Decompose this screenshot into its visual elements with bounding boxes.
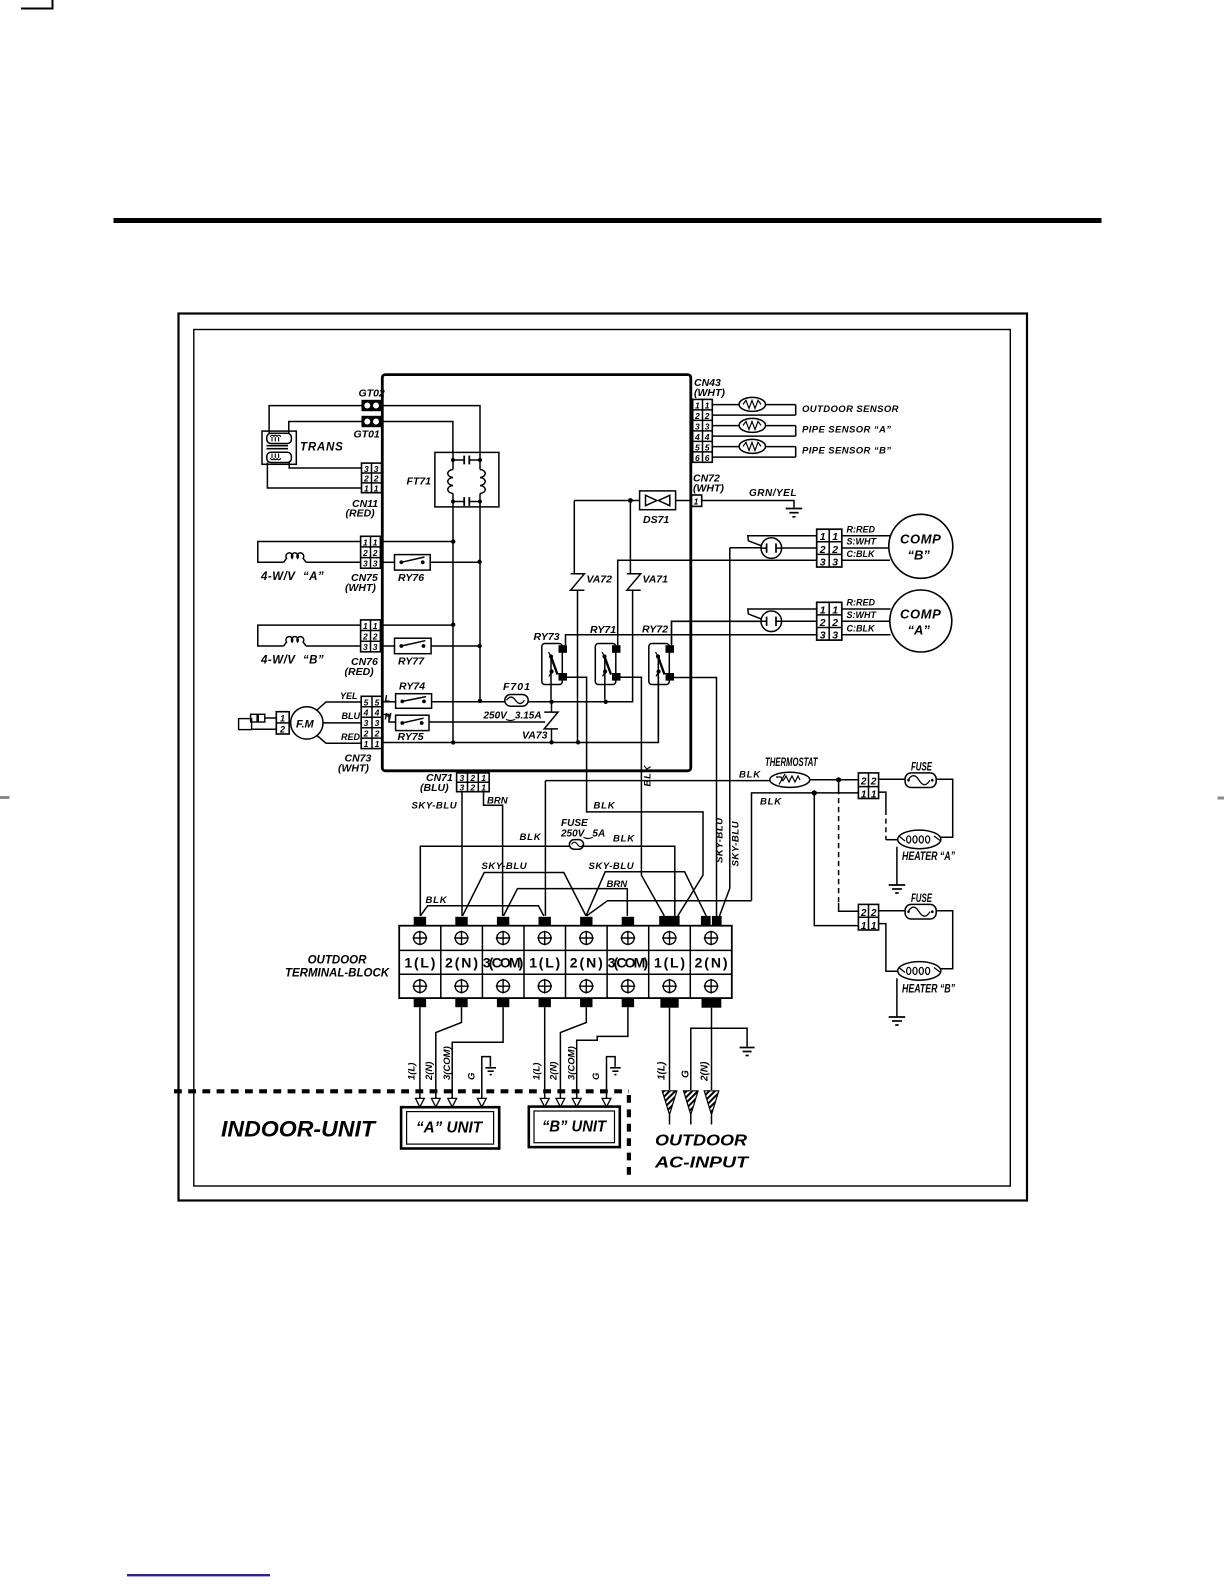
wire CN11 pin3 to TRANS secondary right <box>289 463 361 469</box>
hatched arrow AC 2(N) <box>704 1091 719 1125</box>
relay RY73 <box>542 644 567 685</box>
left gray tick <box>0 796 10 799</box>
wire AC input 1(L) <box>669 1008 671 1090</box>
wire A unit 1(L) <box>419 1007 421 1098</box>
svg-text:1(L): 1(L) <box>407 1063 418 1080</box>
wire main return bus (CN73 pin1 RED line) <box>383 677 659 743</box>
svg-text:HEATER “B”: HEATER “B” <box>902 983 955 996</box>
svg-text:3(COM): 3(COM) <box>442 1046 453 1080</box>
svg-text:OUTDOOR SENSOR: OUTDOOR SENSOR <box>802 404 899 415</box>
svg-text:PIPE SENSOR “A”: PIPE SENSOR “A” <box>802 425 891 436</box>
terminal labels 1(L) 2(N) 3(COM) x2 plus 1(L) 2(N) <box>404 955 727 971</box>
svg-text:2: 2 <box>860 777 867 788</box>
connector CN75 (WHT) <box>361 536 381 568</box>
wire lower feed node down to heater B connector pin1 <box>814 793 858 926</box>
svg-text:G: G <box>466 1072 477 1080</box>
arrows into A unit <box>416 1098 487 1107</box>
svg-text:1: 1 <box>375 739 380 749</box>
svg-text:RY73: RY73 <box>534 631 560 643</box>
fuse heater B <box>905 904 936 919</box>
svg-text:THERMOSTAT: THERMOSTAT <box>765 757 819 770</box>
compressor COMP "B" <box>889 514 953 578</box>
connector CN71 (BLU) <box>457 773 490 793</box>
wire RY77 to bus B <box>431 645 479 647</box>
svg-text:1: 1 <box>364 483 369 493</box>
wire CN11 pin1 to TRANS secondary left <box>267 463 361 489</box>
svg-text:BLK: BLK <box>643 764 654 786</box>
wire DS71 line (surge bus) <box>574 500 691 502</box>
svg-text:2: 2 <box>831 617 838 629</box>
connector heater B 2/1 <box>858 904 878 931</box>
indoor B unit box <box>529 1107 620 1148</box>
wire BLK lug1 to lug4 lower link <box>420 906 544 916</box>
junction dot thermostat node <box>836 777 841 782</box>
wire B unit 2(N) <box>560 1007 586 1098</box>
varistor VA72 <box>571 574 585 743</box>
junction dot VA72 / return bus <box>576 740 580 744</box>
svg-text:3(COM): 3(COM) <box>567 1046 578 1080</box>
svg-text:FT71: FT71 <box>407 476 432 488</box>
svg-text:BLK: BLK <box>594 801 616 812</box>
svg-text:2: 2 <box>469 782 475 792</box>
svg-text:1: 1 <box>861 789 867 800</box>
wire fuse B to heater B right <box>936 911 953 969</box>
wire GT02 left to TRANS <box>269 406 361 434</box>
svg-text:RED: RED <box>341 732 361 742</box>
svg-text:VA71: VA71 <box>643 574 669 586</box>
diode arrester DS71 <box>640 491 676 510</box>
junction dot bus B / RY76 <box>477 560 481 564</box>
wire GRN/YEL earth lead <box>702 501 794 508</box>
wire overload A to pin2 <box>782 620 817 622</box>
hatched arrow AC G <box>684 1091 699 1125</box>
terminal lugs bottom <box>414 998 722 1008</box>
wire B unit 1(L) <box>544 1007 546 1098</box>
fan motor plug connector 1/2 <box>276 712 289 735</box>
wire RY71 top pad riser to COMP B C-line <box>618 560 817 645</box>
svg-text:3: 3 <box>460 773 465 783</box>
relay RY71 <box>595 644 620 685</box>
svg-text:2(N): 2(N) <box>445 955 478 971</box>
svg-text:1: 1 <box>832 531 838 543</box>
svg-text:SKY-BLU: SKY-BLU <box>589 861 635 872</box>
outdoor terminal block body <box>399 926 732 998</box>
svg-text:BLK: BLK <box>613 834 635 845</box>
connector CN43 (WHT) <box>693 399 713 462</box>
connector heater A 2/1 <box>858 773 878 800</box>
svg-text:2: 2 <box>372 548 378 558</box>
svg-text:VA73: VA73 <box>522 730 548 742</box>
svg-text:250V‿5A: 250V‿5A <box>560 829 605 840</box>
connector CN73 (WHT) <box>361 696 383 749</box>
svg-text:2: 2 <box>870 908 877 919</box>
svg-text:3(COM): 3(COM) <box>483 955 523 971</box>
wire heater connector A pin2 to fuse A <box>879 778 906 780</box>
overload protector COMP B <box>761 538 782 559</box>
relay RY77 <box>395 638 432 654</box>
thermostat TH <box>770 772 810 787</box>
svg-text:(WHT): (WHT) <box>694 387 725 399</box>
junction dot VA73 / return bus <box>549 740 553 744</box>
wire overload B feed vertical <box>720 548 761 916</box>
line filter FT71 <box>435 452 499 507</box>
junction dot bus A / CN76-1 <box>451 623 455 627</box>
svg-text:BLU: BLU <box>342 711 361 721</box>
pipe sensor B thermistor <box>712 439 795 457</box>
wire C:BLK to COMP B <box>842 559 890 561</box>
junction dot bus B / L-line <box>478 699 482 703</box>
wire S:WHT to COMP B <box>842 547 890 549</box>
wire heater connector B pin1 to heater B left <box>879 924 898 972</box>
svg-text:1: 1 <box>695 400 700 410</box>
inner frame box <box>194 330 1011 1187</box>
wire RY72 bottom pad to terminal lug 8b <box>674 678 717 916</box>
svg-text:SKY-BLU: SKY-BLU <box>715 817 726 863</box>
svg-text:2: 2 <box>372 632 378 642</box>
connector GT01 <box>362 416 382 427</box>
wire AC input G to ground <box>691 1028 747 1090</box>
top rule <box>114 218 1102 223</box>
svg-text:4-W/V “A”: 4-W/V “A” <box>260 571 324 583</box>
wire GT02 right to FT71 right bus <box>382 406 480 453</box>
wire heater B to ground <box>896 978 898 1016</box>
wire A unit 3(COM) <box>452 1007 503 1098</box>
svg-text:(WHT): (WHT) <box>345 582 376 594</box>
bus A vertical (FT71 left output) <box>452 507 454 743</box>
varistor VA72 riser <box>573 501 575 574</box>
svg-text:G: G <box>680 1070 691 1078</box>
pipe sensor A thermistor <box>712 418 795 436</box>
wire CN76 pin3 to RY77 <box>380 645 394 647</box>
wire RY72 coil to return bus <box>657 658 659 741</box>
relay RY76 <box>395 555 431 571</box>
wire BRN CN71 pin1 to lug3 <box>484 792 503 916</box>
svg-text:RY76: RY76 <box>398 572 424 584</box>
svg-text:1: 1 <box>280 713 285 723</box>
svg-text:1(L): 1(L) <box>531 1063 542 1080</box>
svg-text:F701: F701 <box>503 681 531 693</box>
connector CN11 (RED) <box>362 463 382 493</box>
wire lug5 to heater lower feed <box>587 901 752 916</box>
connector CN72 (WHT) <box>691 495 701 507</box>
fuse F701 <box>505 695 528 707</box>
svg-text:1: 1 <box>820 604 826 616</box>
wire C:BLK to COMP A <box>842 634 891 636</box>
svg-text:FUSE: FUSE <box>561 818 588 829</box>
bottom blue rule <box>127 1574 270 1576</box>
outer frame box <box>179 314 1028 1201</box>
wire CN75 pin1 into PCB to bus A <box>380 541 453 543</box>
svg-text:4-W/V “B”: 4-W/V “B” <box>260 655 324 667</box>
svg-text:SKY-BLU: SKY-BLU <box>731 820 742 866</box>
svg-text:5: 5 <box>695 442 700 452</box>
svg-text:HEATER “A”: HEATER “A” <box>902 851 955 864</box>
wire RY76 to bus B <box>430 561 479 563</box>
fuse heater A <box>905 773 936 788</box>
svg-text:RY75: RY75 <box>398 731 424 743</box>
svg-text:3: 3 <box>363 559 368 569</box>
svg-text:COMP: COMP <box>900 607 941 622</box>
terminal lugs top <box>414 916 722 926</box>
svg-text:3: 3 <box>364 718 369 728</box>
svg-text:2: 2 <box>469 773 475 783</box>
wire thermostat to heater connector A pin2 <box>810 779 859 781</box>
svg-text:FUSE: FUSE <box>911 892 933 905</box>
wire A unit 2(N) <box>436 1007 462 1098</box>
wire SKY-BLU CN71 pin3 to lug2 <box>461 792 463 916</box>
ground symbol heater B <box>889 1017 906 1025</box>
wire F.M BLU to CN73 pin3 <box>323 722 362 724</box>
svg-text:2(N): 2(N) <box>570 955 603 971</box>
wire B unit 3(COM) <box>577 1007 628 1098</box>
svg-text:“A”: “A” <box>908 623 931 638</box>
svg-text:2: 2 <box>694 411 700 421</box>
svg-text:1: 1 <box>832 604 838 616</box>
fan motor F.M <box>291 707 323 739</box>
svg-text:RY72: RY72 <box>642 624 668 636</box>
wire F.M RED to CN73 pin1 <box>317 736 362 744</box>
svg-text:“B” UNIT: “B” UNIT <box>542 1119 607 1136</box>
svg-text:2: 2 <box>819 544 826 556</box>
svg-text:3: 3 <box>373 642 378 652</box>
svg-text:3(COM): 3(COM) <box>608 955 649 971</box>
varistor VA71 riser <box>629 501 631 574</box>
relay RY74 <box>396 694 432 709</box>
svg-text:3: 3 <box>460 782 465 792</box>
wire RY73 coil to L-line <box>550 658 552 700</box>
svg-text:2: 2 <box>870 777 877 788</box>
svg-text:1(L): 1(L) <box>529 955 560 971</box>
wire RY73 top pad riser to COMP A C-line <box>566 635 817 645</box>
wire COMP A pin1 pennant <box>748 609 817 619</box>
svg-text:(RED): (RED) <box>345 666 375 678</box>
svg-text:3: 3 <box>373 559 378 569</box>
svg-text:1: 1 <box>373 621 378 631</box>
svg-text:OUTDOOR: OUTDOOR <box>655 1133 748 1150</box>
svg-text:OUTDOOR: OUTDOOR <box>308 955 367 967</box>
svg-text:3: 3 <box>375 718 380 728</box>
svg-text:5: 5 <box>364 697 369 707</box>
wire CN73 pin5 L-line to RY74 <box>383 701 396 703</box>
svg-text:250V‿3.15A: 250V‿3.15A <box>483 711 542 722</box>
wire CN76 pin1 into PCB to bus A <box>380 624 453 626</box>
svg-text:(RED): (RED) <box>346 508 376 520</box>
svg-text:INDOOR-UNIT: INDOOR-UNIT <box>221 1117 377 1142</box>
svg-text:1: 1 <box>694 497 699 507</box>
svg-text:C:BLK: C:BLK <box>847 549 876 559</box>
relay RY72 <box>649 644 674 685</box>
svg-text:1: 1 <box>363 537 368 547</box>
svg-text:4: 4 <box>363 708 369 718</box>
svg-text:2: 2 <box>363 729 369 739</box>
4-way valve coil A and loop wiring <box>258 542 361 563</box>
terminal screws bottom row <box>413 979 719 994</box>
svg-text:2: 2 <box>279 724 285 734</box>
connector COMP A 1-2-3 <box>817 602 842 641</box>
svg-text:“B”: “B” <box>908 548 931 563</box>
dashed indoor boundary vertical <box>627 1095 631 1181</box>
svg-text:BLK: BLK <box>739 770 761 781</box>
svg-text:4: 4 <box>694 432 700 442</box>
arrows into B unit <box>540 1098 611 1107</box>
connector GT02 <box>362 400 382 411</box>
svg-text:1: 1 <box>871 789 877 800</box>
wire R:RED to COMP B <box>842 535 890 537</box>
svg-text:VA72: VA72 <box>587 574 613 586</box>
svg-text:L: L <box>385 694 391 705</box>
svg-text:1: 1 <box>373 537 378 547</box>
wire heater connector B pin2 to fuse B <box>879 910 906 912</box>
ground symbol (GRN/YEL) <box>786 509 803 517</box>
junction dot L-line / RY71 coil <box>604 700 608 704</box>
dashed indoor boundary horizontal <box>174 1089 629 1093</box>
svg-text:BLK: BLK <box>760 797 782 808</box>
svg-text:4: 4 <box>704 432 710 442</box>
junction dot bus A / CN75-1 <box>451 539 455 543</box>
ground symbol heater A <box>889 885 906 893</box>
hatched arrow AC 1(L) <box>662 1091 677 1125</box>
svg-text:F.M: F.M <box>296 719 315 731</box>
wire BLK thermostat feed <box>545 780 770 782</box>
wire BLK thermostat line down to lug4 <box>544 781 546 916</box>
wire fuse A to heater A right <box>936 779 953 837</box>
svg-text:3: 3 <box>364 464 369 474</box>
svg-text:2: 2 <box>363 474 369 484</box>
wire thermostat node down to heater B connector pin2 (dashed) <box>838 780 840 789</box>
connector CN76 (RED) <box>361 620 381 652</box>
svg-text:2(N): 2(N) <box>695 955 728 971</box>
svg-text:3: 3 <box>820 630 826 642</box>
svg-text:GRN/YEL: GRN/YEL <box>749 488 797 499</box>
svg-text:COMP: COMP <box>900 532 941 547</box>
svg-text:2: 2 <box>860 908 867 919</box>
bus B vertical (FT71 right output) <box>479 507 481 700</box>
svg-text:BLK: BLK <box>426 895 448 906</box>
svg-text:2: 2 <box>373 474 379 484</box>
wire SKY-BLU lug5 to lug8a <box>586 872 706 916</box>
wire BLK fuse line lug1 to lug7 <box>420 846 675 916</box>
transformer T1 TRANS <box>262 431 296 464</box>
svg-text:1: 1 <box>481 773 486 783</box>
svg-text:FUSE: FUSE <box>911 761 933 774</box>
svg-text:1: 1 <box>364 739 369 749</box>
svg-text:RY77: RY77 <box>398 656 425 668</box>
relay RY75 <box>396 715 429 730</box>
svg-text:1(L): 1(L) <box>404 955 435 971</box>
svg-text:GT02: GT02 <box>359 388 385 400</box>
svg-text:TRANS: TRANS <box>300 442 344 454</box>
svg-text:2: 2 <box>831 544 838 556</box>
wire GT01 right to FT71 left bus <box>382 422 453 453</box>
outdoor sensor thermistor <box>712 397 795 415</box>
svg-text:“A” UNIT: “A” UNIT <box>416 1120 483 1137</box>
wire RY73 bottom pad to BLK drop a <box>567 677 703 916</box>
svg-text:1(L): 1(L) <box>656 1061 667 1080</box>
svg-text:5: 5 <box>375 697 380 707</box>
overload protector COMP A <box>761 611 782 632</box>
right gray tick <box>1218 797 1224 800</box>
wire B unit G with flag ground <box>607 1057 621 1099</box>
wire RY75 H-line to VA73 node <box>429 721 545 723</box>
PCB main board outline <box>382 375 691 771</box>
svg-text:4: 4 <box>374 708 380 718</box>
svg-text:TERMINAL-BLOCK: TERMINAL-BLOCK <box>285 968 390 980</box>
svg-text:R:RED: R:RED <box>847 525 876 535</box>
indoor A unit box <box>401 1107 499 1148</box>
svg-text:R:RED: R:RED <box>847 598 876 608</box>
svg-text:(BLU): (BLU) <box>420 782 449 794</box>
wire COMP B pin1 pennant <box>748 536 817 546</box>
4-way valve coil B and loop wiring <box>258 625 361 646</box>
svg-text:2(N): 2(N) <box>424 1062 435 1081</box>
svg-text:SKY-BLU: SKY-BLU <box>482 861 528 872</box>
terminal screws top row <box>413 931 719 946</box>
svg-text:6: 6 <box>695 453 700 463</box>
svg-text:(WHT): (WHT) <box>338 763 369 775</box>
junction dot bus B / RY77 <box>477 644 481 648</box>
svg-text:BRN: BRN <box>487 796 509 807</box>
wire F701 to L-line junctions <box>528 698 632 701</box>
wire BLK lower heater feed <box>752 793 859 901</box>
wire SKY-BLU lug2 to lug5 <box>463 873 587 916</box>
svg-text:YEL: YEL <box>340 691 358 701</box>
svg-text:BLK: BLK <box>520 832 542 843</box>
wire RY71 bottom pad to BLK drop b <box>621 677 665 916</box>
page corner mark top-left <box>21 0 53 9</box>
svg-text:PIPE SENSOR “B”: PIPE SENSOR “B” <box>802 446 891 457</box>
svg-text:2(N): 2(N) <box>549 1062 560 1081</box>
wire RY71 coil to L-line <box>604 658 606 700</box>
svg-text:S:WHT: S:WHT <box>847 537 878 547</box>
wire heater A to ground <box>896 847 898 885</box>
svg-text:1: 1 <box>374 483 379 493</box>
wire AC input 2(N) <box>711 1008 713 1090</box>
connector COMP B 1-2-3 <box>817 529 842 568</box>
svg-text:2: 2 <box>704 411 710 421</box>
svg-text:BRN: BRN <box>607 879 629 890</box>
wire CN75 pin3 to RY76 <box>380 561 394 563</box>
svg-text:DS71: DS71 <box>643 514 669 526</box>
heater B element <box>898 962 941 981</box>
svg-text:2: 2 <box>362 632 368 642</box>
svg-text:1: 1 <box>481 782 486 792</box>
varistor VA73 <box>544 702 558 742</box>
svg-text:3: 3 <box>695 421 700 431</box>
svg-text:1: 1 <box>820 531 826 543</box>
wire GT01 left to TRANS <box>289 422 362 434</box>
svg-text:1: 1 <box>861 921 867 932</box>
wire overload B to pin2 <box>782 547 817 549</box>
junction dot bus A / return bus <box>451 740 455 744</box>
heater A element <box>898 830 941 849</box>
svg-text:AC-INPUT: AC-INPUT <box>654 1155 750 1172</box>
wire BRN lug3 to lug6 <box>504 889 628 916</box>
svg-text:2: 2 <box>819 617 826 629</box>
svg-text:G: G <box>591 1072 602 1080</box>
svg-text:RY74: RY74 <box>399 681 425 693</box>
svg-text:C:BLK: C:BLK <box>847 624 876 634</box>
svg-text:3: 3 <box>820 556 826 568</box>
svg-text:3: 3 <box>705 421 710 431</box>
junction dot L-line / RY73 coil / VA73 <box>549 700 553 704</box>
mains plug symbol <box>239 714 277 729</box>
wire A unit G with flag ground <box>482 1057 496 1099</box>
wire R:RED to COMP A <box>842 608 891 610</box>
svg-text:1(L): 1(L) <box>654 955 685 971</box>
svg-text:SKY-BLU: SKY-BLU <box>412 801 458 812</box>
svg-text:2: 2 <box>362 548 368 558</box>
svg-text:3: 3 <box>363 642 368 652</box>
